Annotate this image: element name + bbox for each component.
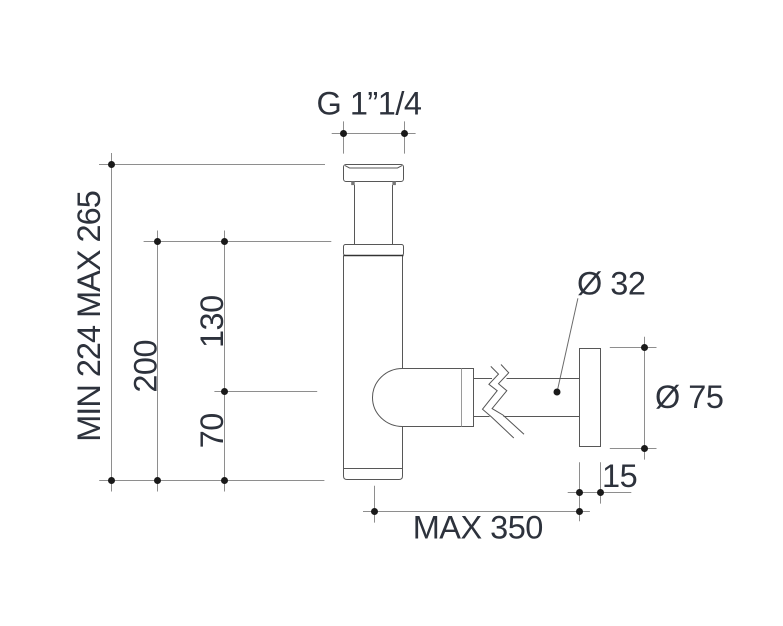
- svg-text:MAX 350: MAX 350: [413, 510, 543, 546]
- svg-text:MIN 224 MAX 265: MIN 224 MAX 265: [71, 191, 107, 442]
- svg-text:130: 130: [194, 295, 230, 348]
- svg-text:G 1”1/4: G 1”1/4: [317, 85, 422, 121]
- svg-text:200: 200: [128, 340, 164, 393]
- svg-text:Ø 32: Ø 32: [577, 266, 645, 302]
- svg-text:70: 70: [194, 413, 230, 448]
- svg-text:15: 15: [602, 458, 637, 494]
- svg-text:Ø 75: Ø 75: [655, 379, 723, 415]
